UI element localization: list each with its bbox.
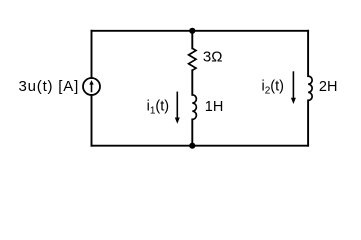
wire middle lower (191, 119, 193, 145)
label 1H (205, 99, 224, 115)
svg-text:i2(t): i2(t) (262, 79, 284, 97)
svg-text:1H: 1H (205, 99, 224, 115)
svg-text:i1(t): i1(t) (147, 99, 169, 117)
wire right lower (307, 100, 309, 145)
arrow of current source (up) (89, 80, 93, 92)
label 2H (319, 79, 338, 95)
inductor L2 2H coil (308, 76, 312, 100)
current arrow i1(t) down (175, 92, 180, 124)
label 3u(t) [A] (19, 78, 80, 95)
wire bottom (92, 145, 309, 147)
wire top (92, 30, 309, 32)
wire left upper (91, 31, 93, 78)
svg-text:3Ω: 3Ω (203, 48, 223, 65)
wire middle between R and L (191, 70, 193, 95)
node junction dot top (189, 28, 195, 34)
svg-text:3u(t) [A]: 3u(t) [A] (19, 78, 80, 95)
resistor R1 zigzag (189, 48, 196, 70)
label i2(t) (262, 79, 284, 97)
wire middle upper (191, 31, 193, 49)
wire right upper (307, 31, 309, 76)
node junction dot bottom (189, 143, 195, 149)
wire left lower (91, 95, 93, 146)
inductor L1 1H coil (192, 95, 196, 120)
label 3Ω (203, 48, 223, 65)
label i1(t) (147, 99, 169, 117)
svg-text:2H: 2H (319, 79, 338, 95)
current arrow i2(t) down (291, 71, 296, 104)
current source I1 3u(t) [A] (83, 78, 100, 95)
